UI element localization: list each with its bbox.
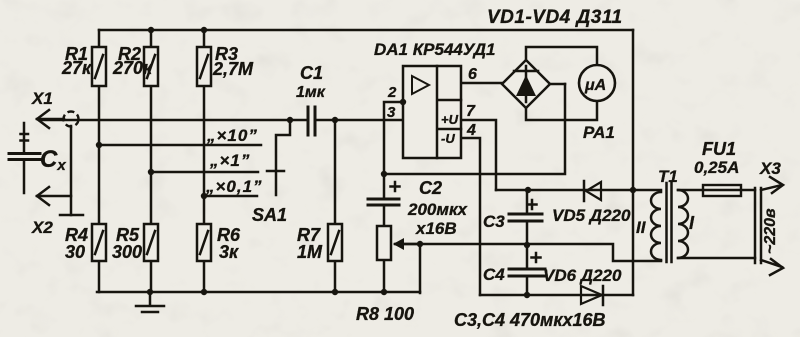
wire C4 leads [526, 245, 529, 295]
svg-text:3: 3 [387, 104, 396, 121]
node feedback rail C2 [381, 171, 387, 177]
wire transformer primary top lead with fuse line [678, 189, 755, 192]
capacitor C2 [368, 182, 400, 205]
connector X1 jack circle [64, 112, 79, 127]
wire C2 top lead [383, 174, 386, 199]
svg-text:„×0,1”: „×0,1” [205, 177, 263, 196]
wire bottom bus [97, 291, 420, 294]
svg-text:C3: C3 [483, 212, 505, 231]
wire bridge top to meter top [526, 47, 597, 64]
svg-text:3к: 3к [219, 242, 239, 262]
svg-text:7: 7 [466, 103, 476, 120]
svg-text:VD1-VD4 Д311: VD1-VD4 Д311 [487, 7, 623, 28]
svg-text:C4: C4 [483, 265, 505, 284]
svg-text:PA1: PA1 [583, 123, 615, 142]
connector X3 arrow bottom [761, 259, 783, 275]
resistor R6 [197, 224, 211, 261]
svg-text:~220в: ~220в [762, 208, 779, 254]
transformer T1 winding II [651, 192, 661, 260]
svg-text:1М: 1М [297, 242, 323, 262]
transformer T1 winding I [678, 190, 688, 258]
wire feedback rail to bridge right vertex [383, 84, 565, 174]
svg-text:-U: -U [441, 131, 455, 146]
svg-text:C2: C2 [419, 178, 442, 198]
svg-text:SA1: SA1 [252, 205, 287, 225]
wire op-amp pin 6 to bridge [461, 82, 502, 85]
svg-text:„×10”: „×10” [206, 126, 258, 145]
wire bridge bottom to meter bottom [526, 101, 597, 120]
node top bus R2 [148, 27, 154, 33]
svg-text:X2: X2 [31, 218, 53, 237]
node R7 on main line [332, 117, 338, 123]
wire transformer primary bottom lead [678, 257, 755, 260]
potentiometer R8 [377, 226, 420, 260]
wire column R3-R6 [203, 30, 206, 292]
svg-text:0,25А: 0,25А [694, 158, 739, 177]
wire x0,1 range line [204, 195, 257, 198]
wire op-amp pin 7 to +U rail [461, 120, 496, 190]
resistor R1 [92, 47, 106, 86]
node bottom bus R6 [201, 289, 207, 295]
svg-text:C3,C4 470мкх16В: C3,C4 470мкх16В [454, 310, 606, 330]
svg-text:4: 4 [466, 122, 476, 139]
transformer T1 core [667, 183, 672, 262]
svg-text:R8 100: R8 100 [356, 304, 414, 324]
switch SA1 [267, 120, 290, 195]
svg-text:200мкх: 200мкх [407, 200, 469, 219]
node x10 line R1 [96, 142, 102, 148]
wire x10 range line [99, 144, 261, 147]
node wiper loop [417, 241, 423, 247]
diode VD6 [581, 286, 603, 305]
svg-text:30: 30 [65, 242, 85, 262]
wire -U bus with VD6 [480, 294, 633, 297]
node middle rail C3 C4 [524, 242, 530, 248]
svg-text:27к: 27к [61, 58, 92, 78]
capacitor C1 [308, 107, 315, 135]
wire C3 leads [526, 190, 529, 245]
fuse FU1 [703, 185, 741, 196]
wire x1 range line [151, 171, 258, 174]
svg-text:+U: +U [441, 112, 459, 127]
diode VD5 [584, 181, 601, 201]
node x1 line R2 [148, 169, 154, 175]
wire C2 bottom to R8 [383, 205, 386, 292]
node x0,1 line R3 [201, 193, 207, 199]
meter PA1 [579, 65, 615, 101]
ground symbol [136, 292, 164, 312]
wire column R7 [334, 120, 337, 292]
wire column R1-R4 [98, 30, 101, 292]
svg-text:II: II [636, 218, 647, 237]
node SA1 on main line [287, 117, 293, 123]
wire R8 bottom loop to wiper [419, 244, 422, 293]
node +U rail C3 [525, 187, 531, 193]
svg-text:X3: X3 [759, 159, 781, 178]
svg-text:X1: X1 [31, 89, 53, 108]
connector X3 bars [755, 188, 761, 263]
wire bridge right vertex stub [550, 83, 565, 86]
op-amp DA1 [403, 66, 461, 158]
wire op-amp pin 4 to -U rail [461, 138, 480, 295]
node top bus R3 [201, 27, 207, 33]
resistor R7 [328, 224, 342, 261]
svg-text:2: 2 [387, 84, 397, 101]
svg-text:300: 300 [112, 242, 142, 262]
svg-text:DA1 КР544УД1: DA1 КР544УД1 [374, 40, 495, 59]
svg-text:х16В: х16В [415, 219, 457, 238]
connector X1 arrow [37, 110, 64, 128]
capacitor C4 [509, 253, 545, 276]
wire top AC bus [99, 29, 633, 32]
node op-amp pin 2 [400, 99, 406, 105]
resistor R3 [197, 47, 211, 86]
resistor R2 [144, 47, 158, 86]
wire X1 jack down to X2 [70, 126, 73, 215]
svg-text:FU1: FU1 [702, 139, 736, 159]
wire column R2-R5 [150, 30, 153, 292]
wire main input line X1 to op-amp pin 3 [40, 119, 403, 122]
diode bridge VD1-VD4 [502, 60, 550, 108]
node bottom bus R7 [332, 289, 338, 295]
svg-text:6: 6 [468, 66, 477, 83]
wire +U rail to winding II top [496, 189, 661, 192]
resistor R5 [144, 224, 158, 261]
svg-text:1мк: 1мк [296, 84, 326, 101]
svg-text:μА: μА [584, 77, 606, 94]
capacitor Cx [9, 123, 40, 193]
node -U bus C4 [524, 292, 530, 298]
svg-text:270к: 270к [112, 58, 153, 78]
terminal bar X2 [60, 214, 83, 217]
node AC riser on +U rail [630, 187, 636, 193]
svg-text:T1: T1 [658, 167, 678, 186]
wire middle 0V rail [395, 244, 661, 261]
connector X3 arrow top [761, 177, 783, 193]
resistor R4 [92, 224, 106, 261]
svg-text:2,7М: 2,7М [212, 59, 254, 79]
node bottom bus R8 [381, 289, 387, 295]
svg-text:„×1”: „×1” [209, 151, 250, 170]
node bottom bus ground [147, 289, 153, 295]
wire op-amp pin 2 feedback [384, 102, 403, 174]
svg-text:C1: C1 [300, 63, 323, 83]
svg-text:VD5 Д220: VD5 Д220 [552, 206, 631, 225]
connector X2 arrow [37, 187, 71, 205]
wire right AC riser [632, 30, 635, 295]
capacitor C3 [509, 200, 542, 221]
svg-text:VD6 Д220: VD6 Д220 [543, 266, 622, 285]
